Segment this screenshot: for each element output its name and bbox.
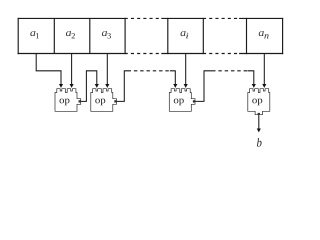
label a_n glyph a bbox=[259, 31, 264, 36]
label b (result) bbox=[257, 138, 262, 147]
op-box U1 (puzzle piece) bbox=[55, 89, 81, 112]
label a_1 glyph a bbox=[30, 31, 35, 36]
wire a3 -> op U2 right input bbox=[106, 54, 108, 85]
array bottom border dashed segments bbox=[128, 53, 239, 55]
array cell vertical borders bbox=[18, 18, 282, 54]
arrowhead into U1 right tab bbox=[70, 84, 74, 88]
array top border solid segments bbox=[18, 17, 284, 19]
arrowhead into U1 left tab bbox=[59, 84, 63, 88]
op text o in Ui bbox=[174, 99, 179, 104]
label a_3 glyph a bbox=[102, 31, 107, 36]
op-box U2 (puzzle piece) bbox=[91, 89, 117, 112]
op text p in U1 bbox=[65, 99, 70, 106]
arrowhead Un output to b bbox=[257, 129, 261, 133]
arrowhead into Ui right tab bbox=[184, 84, 188, 88]
array top border dashed segments bbox=[128, 17, 239, 19]
op text p in U2 bbox=[100, 99, 105, 106]
wire op U2 output -> op Ui left input (solid parts) bbox=[115, 71, 175, 102]
arrowhead into Ui left tab bbox=[173, 84, 177, 88]
wire op U1 output -> op U2 left input bbox=[79, 71, 97, 102]
op-box Un (puzzle piece) bbox=[248, 89, 270, 115]
op text p in Ui bbox=[179, 99, 184, 106]
array bottom border solid segments bbox=[18, 53, 284, 55]
label a_1 subscript 1 bbox=[36, 33, 39, 38]
label a_3 subscript 3 bbox=[107, 33, 110, 38]
label a_i subscript i bbox=[186, 33, 188, 39]
label a_2 subscript 2 bbox=[72, 33, 75, 38]
label a_n subscript n bbox=[264, 34, 268, 38]
op text o in U1 bbox=[60, 99, 65, 104]
wire op U2 -> op Ui (dashed continuation) bbox=[131, 70, 170, 72]
arrowhead into Un right tab bbox=[262, 84, 266, 88]
op-box Ui (puzzle piece) bbox=[169, 89, 195, 112]
arrowhead into Un left tab bbox=[252, 84, 256, 88]
arrowhead into U2 right tab bbox=[105, 84, 109, 88]
op text o in Un bbox=[252, 99, 257, 104]
op text p in Un bbox=[257, 99, 262, 106]
wire a_n -> op Un right input bbox=[263, 54, 265, 85]
label a_i glyph a bbox=[180, 31, 185, 36]
wire a_i -> op Ui right input bbox=[185, 54, 187, 85]
wire a1 -> op U1 left input bbox=[36, 54, 61, 85]
label a_2 glyph a bbox=[66, 31, 71, 36]
wire op Ui -> op Un (dashed continuation) bbox=[216, 70, 248, 72]
wire op Ui output -> op Un left input (solid parts) bbox=[194, 71, 254, 102]
op text o in U2 bbox=[95, 99, 100, 104]
wire op Un output -> b bbox=[258, 114, 260, 129]
arrowhead into U2 left tab bbox=[95, 84, 99, 88]
wire a2 -> op U1 right input bbox=[71, 54, 73, 85]
